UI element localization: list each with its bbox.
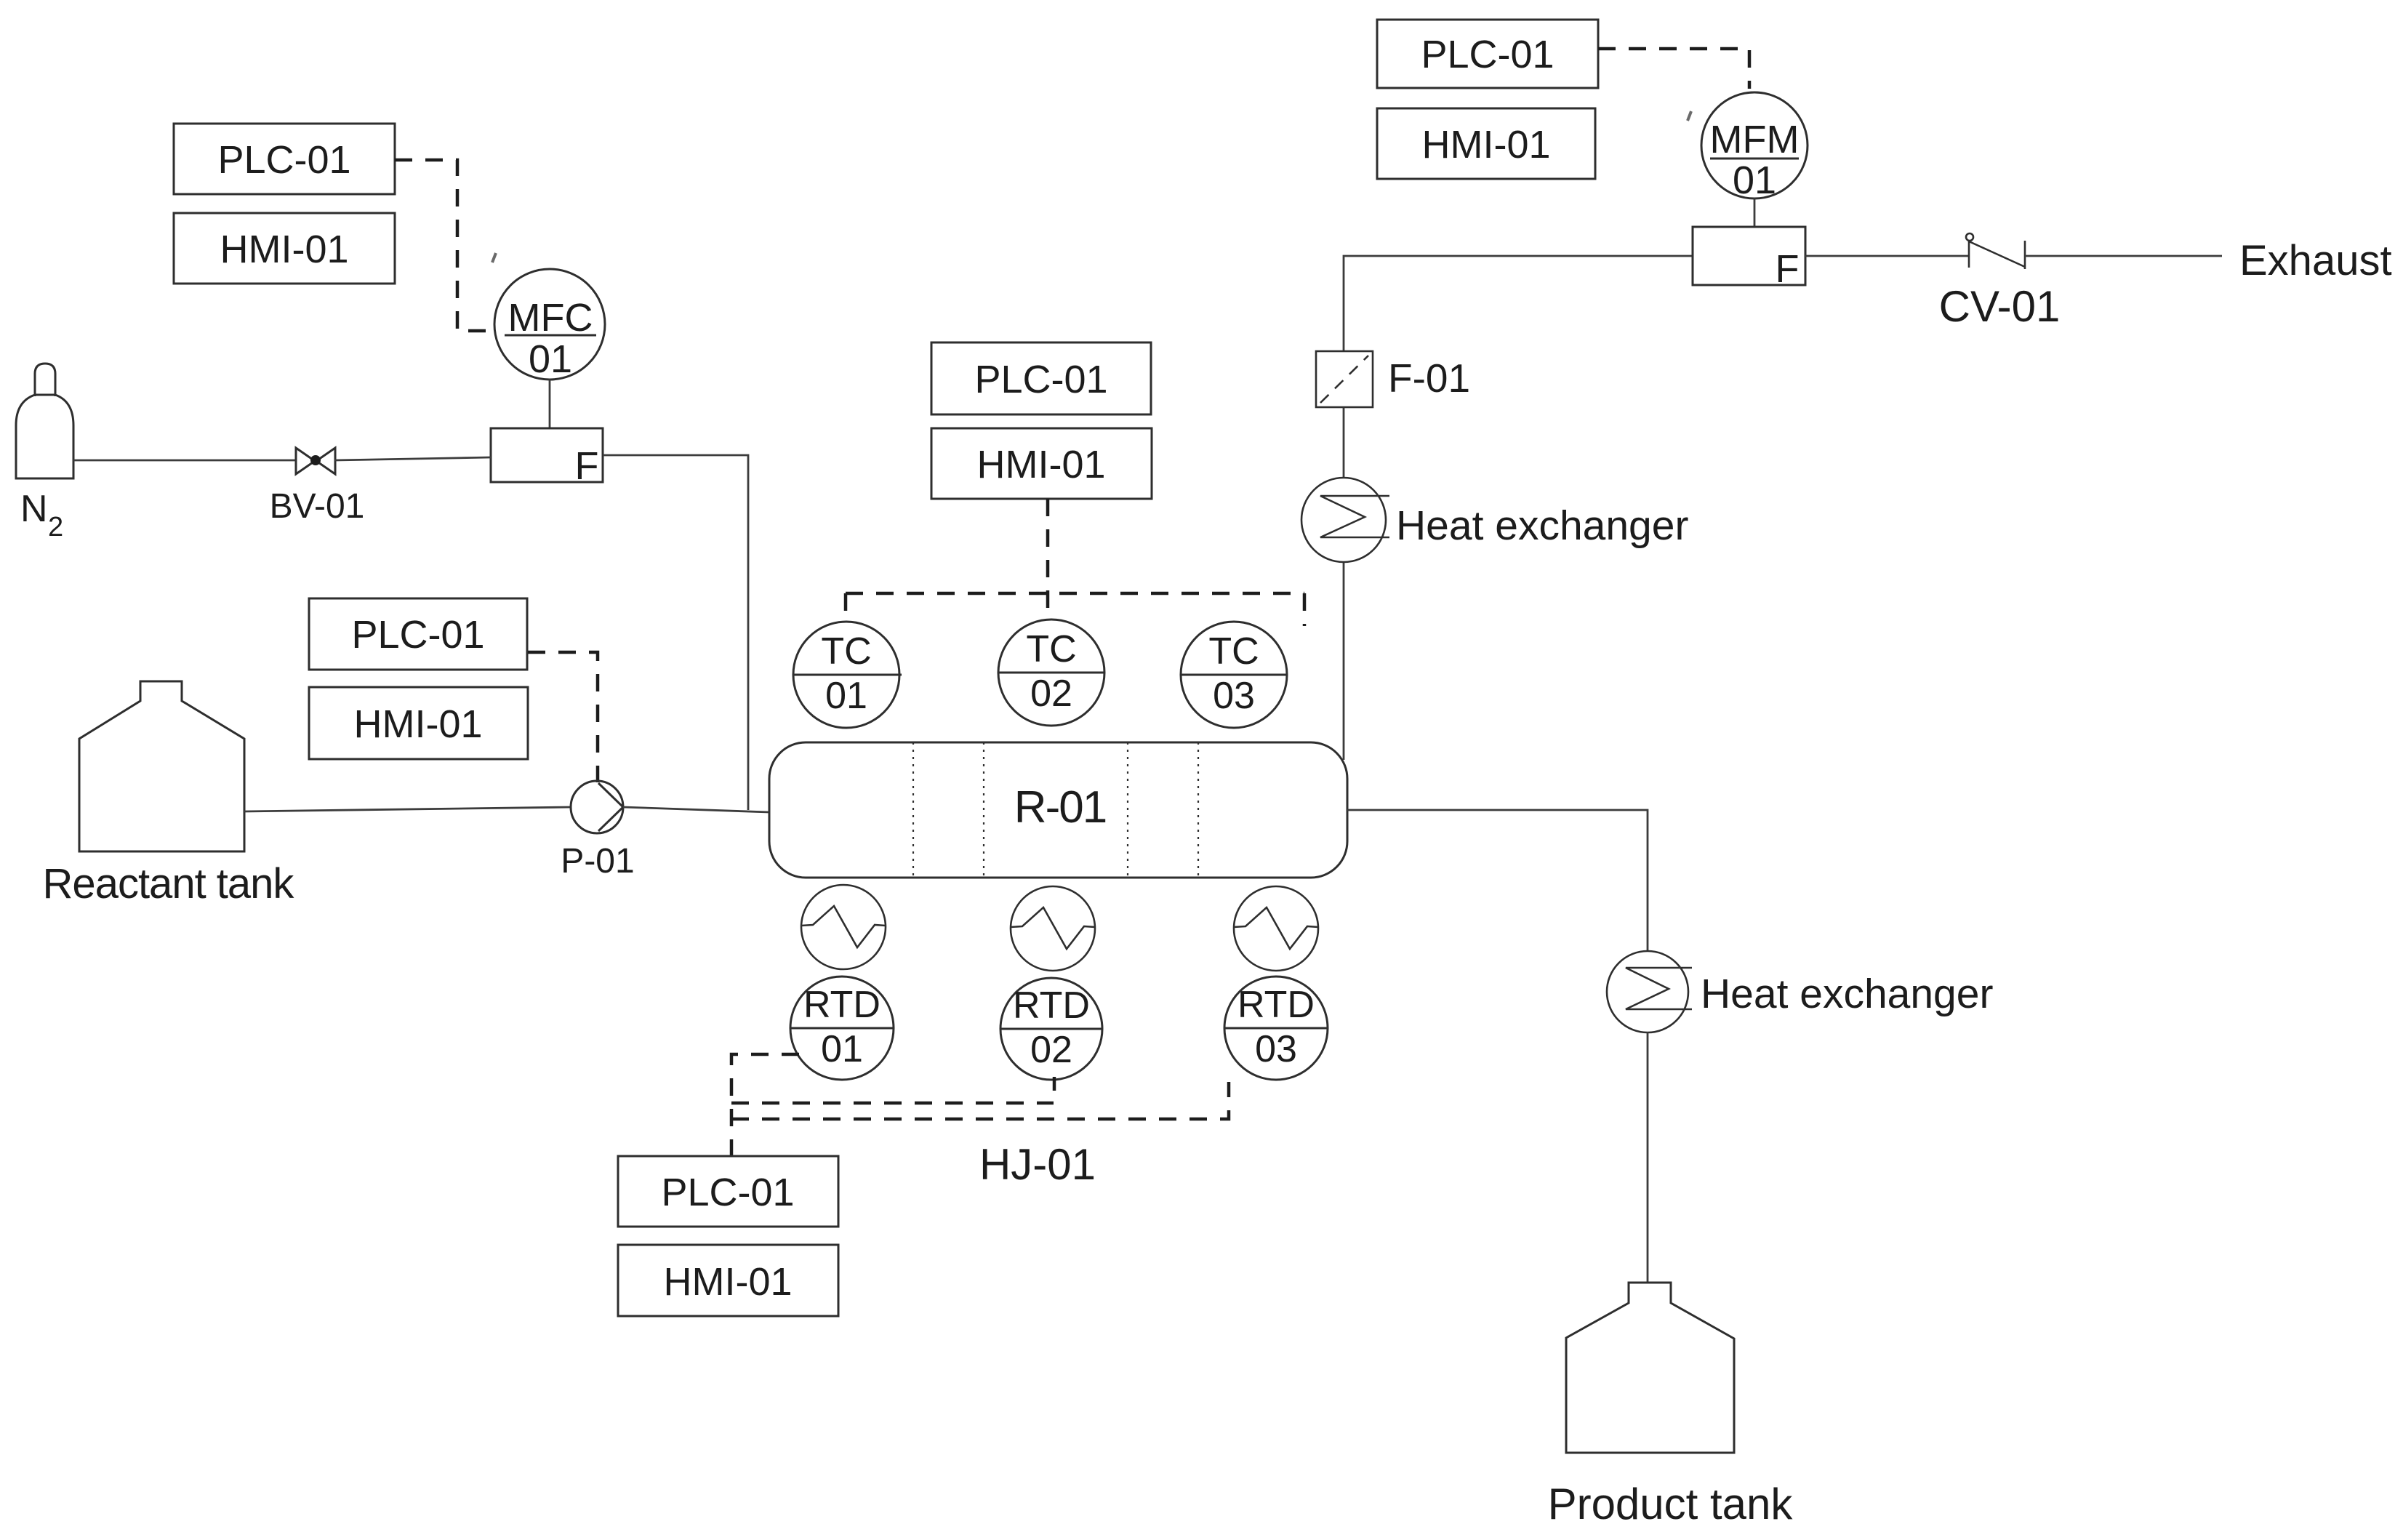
instrument RTD-01: [790, 976, 894, 1080]
svg-text:PLC-01: PLC-01: [974, 358, 1107, 401]
wire N2 cylinder to BV-01: [73, 460, 297, 462]
svg-text:RTD: RTD: [1013, 984, 1090, 1027]
svg-text:HMI-01: HMI-01: [220, 228, 348, 271]
signal wire PLC-01 to MFC-01 (dashed): [395, 160, 493, 331]
svg-text:HMI-01: HMI-01: [353, 702, 482, 746]
heat exchanger 2: [1607, 951, 1692, 1032]
svg-text:01: 01: [821, 1028, 863, 1070]
svg-text:RTD: RTD: [1237, 984, 1315, 1026]
wire flow body F to check valve CV-01: [1805, 255, 1969, 257]
signal wire HMI box to TC row (dashed vertical center): [1046, 499, 1050, 619]
flow body F (MFC): [491, 428, 603, 482]
signal wire RTD-01 to PLC (dashed): [731, 1054, 799, 1156]
HMI-01 box 3: [931, 428, 1152, 499]
reactor zone divider 3 (dotted): [1127, 742, 1128, 878]
svg-text:Heat exchanger: Heat exchanger: [1701, 971, 1993, 1017]
svg-text:TC: TC: [1026, 628, 1076, 670]
svg-text:TC: TC: [821, 630, 871, 673]
svg-text:01: 01: [825, 675, 867, 717]
wire flow body F to reactor inlet (down): [603, 455, 748, 810]
svg-text:F: F: [575, 444, 599, 488]
svg-text:HMI-01: HMI-01: [976, 443, 1105, 486]
svg-text:MFC: MFC: [508, 296, 593, 340]
instrument TC-03: [1181, 622, 1287, 728]
svg-text:HMI-01: HMI-01: [1421, 123, 1550, 167]
heater element 3 (HJ-01 zone 3): [1234, 886, 1318, 971]
svg-text:PLC-01: PLC-01: [1421, 33, 1554, 76]
svg-text:03: 03: [1255, 1028, 1297, 1070]
svg-text:03: 03: [1213, 675, 1255, 717]
reactor R-01 vessel: [769, 742, 1347, 878]
PLC-01 box 3: [931, 342, 1151, 414]
HMI-01 box 1: [174, 213, 395, 284]
svg-text:CV-01: CV-01: [1939, 282, 2061, 331]
svg-text:RTD: RTD: [803, 984, 880, 1026]
wire MFC-01 to flow body F: [549, 380, 551, 428]
svg-text:PLC-01: PLC-01: [351, 613, 484, 657]
svg-text:Heat exchanger: Heat exchanger: [1396, 502, 1688, 549]
wire MFM-01 to flow body F: [1754, 198, 1756, 227]
stub RTD-02 to bus: [1053, 1077, 1056, 1091]
HMI-01 box 5: [1377, 108, 1595, 179]
svg-text:P-01: P-01: [561, 842, 634, 881]
PLC-01 box 1: [174, 124, 395, 194]
signal bus RTD-03 branch (dashed): [731, 1082, 1229, 1119]
check valve CV-01: [1966, 233, 2025, 269]
PLC-01 box 2: [309, 598, 527, 670]
svg-text:Reactant tank: Reactant tank: [43, 860, 295, 907]
svg-text:01: 01: [529, 337, 572, 381]
signal bus above TC row (dashed horizontal): [846, 592, 1304, 595]
wire reactant tank to pump P-01: [244, 807, 571, 811]
signal stub to TC-03 (dashed): [1303, 593, 1307, 626]
svg-text:BV-01: BV-01: [270, 487, 365, 526]
signal bus RTD-02 branch (dashed): [731, 1102, 1054, 1105]
svg-text:R-01: R-01: [1014, 782, 1106, 833]
svg-text:F: F: [1776, 247, 1800, 291]
wire heat exchanger 2 to product tank: [1647, 1032, 1649, 1283]
svg-text:02: 02: [1030, 673, 1072, 715]
instrument MFM-01: [1701, 92, 1808, 198]
reactant tank: [79, 681, 244, 851]
PLC-01 box 5: [1377, 20, 1598, 88]
wire reactor top-right riser: [1344, 256, 1693, 760]
reactor zone divider 2 (dotted): [983, 742, 984, 878]
pump P-01: [571, 781, 623, 833]
svg-text:N: N: [20, 488, 48, 530]
filter F-01: [1316, 351, 1373, 407]
stray tick mark near MFM-01: [1688, 111, 1691, 121]
wire CV-01 to exhaust: [2025, 255, 2222, 257]
product tank: [1566, 1283, 1734, 1453]
instrument TC-02: [998, 619, 1104, 726]
instrument RTD-03: [1224, 976, 1328, 1080]
HMI-01 box 2: [309, 687, 528, 759]
svg-text:PLC-01: PLC-01: [217, 138, 350, 182]
svg-text:TC: TC: [1208, 630, 1259, 673]
signal wire PLC-01 to MFM-01 (dashed): [1598, 49, 1749, 89]
svg-text:01: 01: [1733, 159, 1776, 202]
flow body F (MFM): [1693, 227, 1805, 285]
svg-text:2: 2: [48, 512, 63, 542]
signal stub to TC-01 (dashed): [844, 593, 848, 624]
wire BV-01 to flow body F: [334, 457, 491, 460]
valve BV-01: [296, 448, 335, 474]
N2 cylinder: [16, 364, 73, 478]
svg-text:02: 02: [1030, 1029, 1072, 1071]
wire pump P-01 to reactor R-01: [623, 807, 769, 812]
svg-text:HJ-01: HJ-01: [979, 1140, 1096, 1189]
svg-text:Product tank: Product tank: [1548, 1480, 1794, 1528]
heat exchanger 1: [1301, 478, 1389, 562]
svg-text:F-01: F-01: [1388, 356, 1470, 401]
svg-text:Exhaust: Exhaust: [2239, 237, 2392, 284]
svg-text:PLC-01: PLC-01: [661, 1171, 794, 1214]
instrument RTD-02: [1000, 978, 1102, 1080]
wire reactor outlet to heat exchanger 2: [1347, 810, 1648, 951]
HMI-01 box 4: [618, 1245, 838, 1316]
PLC-01 box 4: [618, 1156, 838, 1227]
heater element 2 (HJ-01 zone 2): [1011, 886, 1095, 971]
svg-text:MFM: MFM: [1710, 118, 1800, 161]
heater element 1 (HJ-01 zone 1): [801, 885, 886, 969]
instrument TC-01: [793, 622, 902, 728]
signal wire PLC-01 to pump P-01 (dashed): [528, 652, 598, 782]
instrument MFC-01: [494, 269, 605, 380]
reactor zone divider 4 (dotted): [1197, 742, 1199, 878]
reactor zone divider 1 (dotted): [912, 742, 914, 878]
svg-text:HMI-01: HMI-01: [663, 1260, 792, 1304]
stray tick mark near MFC-01: [492, 253, 496, 262]
